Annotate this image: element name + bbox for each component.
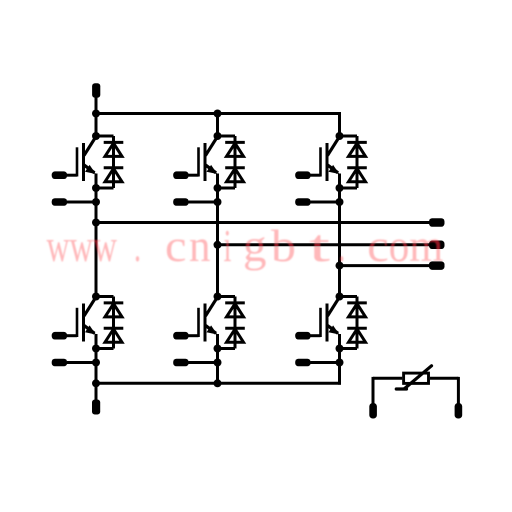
node Q2 cell aux emitter [214, 198, 222, 206]
transistor Q2 body bar [204, 143, 207, 181]
diode D4b [105, 329, 122, 342]
node Q3 cell aux emitter [336, 198, 344, 206]
transistor Q3 emitter arrowhead [329, 165, 340, 174]
wire thermistor left lead [373, 377, 402, 380]
wire leg2 top rail to Q2 collector [216, 114, 219, 137]
wire Q1 cell collector-to-diode top [96, 135, 114, 138]
transistor Q5 body bar [204, 304, 207, 342]
wire Q6 cell aux emitter lead [311, 361, 340, 364]
transistor Q3 collector diagonal [328, 137, 340, 156]
wire Q5 cell diode-to-emitter bottom [218, 347, 236, 350]
transistor Q5 emitter diagonal [205, 325, 216, 333]
svg-text:i: i [224, 220, 232, 271]
transistor Q3 gate bar [319, 147, 322, 176]
wire leg3 top rail corner to Q3 collector [338, 112, 341, 136]
wire Q3 cell diode-to-emitter bottom [340, 187, 358, 190]
transistor Q6 emitter arrowhead [329, 325, 340, 334]
wire N bus (bottom rail) [96, 382, 341, 385]
transistor Q1 gate bar [76, 147, 79, 176]
diode D1 [105, 143, 122, 156]
node Q3 cell collector [336, 132, 344, 140]
node Q2 cell collector [214, 132, 222, 140]
terminal pad aux emitter Q6 [295, 359, 310, 367]
node Q1 cell aux emitter [92, 198, 100, 206]
wire P bus (top rail) [96, 112, 341, 115]
wire Q4 cell diode column [112, 297, 115, 349]
terminal pad phase W [429, 261, 445, 270]
node phase V junction [214, 241, 222, 249]
transistor Q1 gate lead [67, 174, 77, 177]
wire leg3 Q6 emitter to N rail corner [338, 336, 341, 385]
terminal pad gate Q5 [173, 332, 188, 340]
diode D6b cathode bar [347, 327, 367, 330]
svg-text:w: w [93, 220, 118, 271]
terminal pad gate Q3 [295, 171, 310, 179]
terminal pad P (DC+) [92, 83, 100, 97]
terminal pad aux emitter Q3 [295, 198, 310, 206]
wire leg1 P terminal to Q1 collector [95, 91, 98, 137]
wire Q3 cell diode column [356, 136, 359, 188]
transistor Q2 collector diagonal [206, 137, 218, 156]
terminal pad thermistor left [369, 403, 377, 419]
transistor Q6 collector diagonal [328, 297, 340, 316]
diode D3b [349, 169, 366, 182]
transistor Q6 emitter diagonal [327, 325, 338, 333]
terminal pad phase U [429, 218, 445, 227]
svg-text:c: c [367, 220, 389, 271]
node leg2 N rail junction [214, 379, 222, 387]
wire Q4 cell diode-to-emitter bottom [96, 347, 114, 350]
transistor Q2 gate lead [189, 174, 199, 177]
wire Q6 emitter lead [338, 334, 341, 349]
wire thermistor left drop [372, 377, 375, 404]
node Q2 cell emitter [214, 184, 222, 192]
terminal pad aux emitter Q5 [173, 359, 188, 367]
wire thermistor right drop [457, 377, 460, 404]
terminal pad aux emitter Q4 [52, 359, 67, 367]
svg-text:.: . [134, 220, 141, 271]
diode D3 cathode bar [347, 141, 367, 144]
wire Q4 cell collector-to-diode top [96, 295, 114, 298]
diode D1 cathode bar [104, 141, 124, 144]
node leg2 P rail junction [214, 110, 222, 118]
diode D5b [227, 329, 244, 342]
wire phase V output line [218, 243, 430, 246]
transistor Q4 gate lead [67, 334, 77, 337]
transistor Q1 emitter diagonal [84, 165, 95, 173]
wire Q6 cell collector-to-diode top [340, 295, 358, 298]
wire Q1 cell diode-to-emitter bottom [96, 187, 114, 190]
node Q4 cell collector [92, 293, 100, 301]
transistor Q4 body bar [82, 304, 85, 342]
wire Q2 cell diode column [234, 136, 237, 188]
wire Q6 cell diode-to-emitter bottom [340, 347, 358, 350]
wire leg2 Q2 emitter to Q5 collector [216, 175, 219, 297]
transistor Q2 gate bar [197, 147, 200, 176]
node Q6 cell aux emitter [336, 359, 344, 367]
transistor Q1 collector diagonal [84, 137, 96, 156]
wire Q5 emitter lead [216, 334, 219, 349]
node Q5 cell emitter [214, 345, 222, 353]
wire Q4 emitter lead [95, 334, 98, 349]
diode D1b [105, 169, 122, 182]
transistor Q2 emitter arrowhead [207, 165, 218, 174]
diode D6 cathode bar [347, 301, 367, 304]
diode D1b cathode bar [104, 166, 124, 169]
transistor Q1 body bar [82, 143, 85, 181]
transistor Q4 collector diagonal [84, 297, 96, 316]
svg-text:b: b [271, 220, 296, 271]
transistor Q2 emitter diagonal [205, 165, 216, 173]
node Q3 cell emitter [336, 184, 344, 192]
wire Q1 emitter lead [95, 174, 98, 189]
diode D4 [105, 304, 122, 317]
terminal pad aux emitter Q2 [173, 198, 188, 206]
wire leg3 Q3 emitter to Q6 collector [338, 175, 341, 297]
transistor Q4 emitter diagonal [84, 325, 95, 333]
terminal pad N (DC-) [92, 400, 100, 415]
diode D3 [349, 143, 366, 156]
svg-text:.: . [339, 220, 346, 271]
wire Q2 cell aux emitter lead [189, 201, 218, 204]
transistor Q5 gate lead [189, 334, 199, 337]
wire Q2 cell diode-to-emitter bottom [218, 187, 236, 190]
diode D5 [227, 304, 244, 317]
diode D4 cathode bar [104, 301, 124, 304]
diode D2b [227, 169, 244, 182]
transistor Q5 collector diagonal [206, 297, 218, 316]
node Q6 cell collector [336, 293, 344, 301]
diode D3b cathode bar [347, 166, 367, 169]
diode D6b [349, 329, 366, 342]
wire Q1 cell aux emitter lead [67, 201, 96, 204]
wire Q6 cell diode column [356, 297, 359, 349]
wire leg1 Q1 emitter to Q4 collector [95, 175, 98, 297]
wire Q2 emitter lead [216, 174, 219, 189]
node Q1 cell emitter [92, 184, 100, 192]
node Q1 cell collector [92, 132, 100, 140]
node Q6 cell emitter [336, 345, 344, 353]
terminal pad thermistor right [455, 403, 463, 419]
svg-text:t: t [309, 220, 330, 271]
wire Q2 cell collector-to-diode top [218, 135, 236, 138]
wire Q3 emitter lead [338, 174, 341, 189]
node Q5 cell collector [214, 293, 222, 301]
thermistor RT body [404, 373, 429, 383]
node Q4 cell emitter [92, 345, 100, 353]
wire thermistor right lead [430, 377, 458, 380]
diode D5b cathode bar [225, 327, 245, 330]
node phase W junction [336, 262, 344, 270]
transistor Q3 emitter diagonal [327, 165, 338, 173]
wire Q3 cell aux emitter lead [311, 201, 340, 204]
transistor Q4 gate bar [76, 308, 79, 337]
svg-text:w: w [70, 220, 94, 271]
transistor Q6 gate bar [319, 308, 322, 337]
thermistor RT slash foot [396, 387, 406, 390]
svg-text:g: g [243, 220, 267, 271]
svg-text:w: w [47, 220, 71, 271]
wire Q3 cell collector-to-diode top [340, 135, 358, 138]
diode D2 cathode bar [225, 141, 245, 144]
diode D2b cathode bar [225, 166, 245, 169]
node leg1 N rail junction [92, 379, 100, 387]
wire Q5 cell aux emitter lead [189, 361, 218, 364]
wire leg1 Q4 emitter chain to N terminal [95, 336, 98, 408]
terminal pad gate Q1 [52, 171, 67, 179]
transistor Q5 emitter arrowhead [207, 325, 218, 334]
wire phase U output line [96, 221, 430, 224]
diode D4b cathode bar [104, 327, 124, 330]
transistor Q6 gate lead [311, 334, 321, 337]
transistor Q3 gate lead [311, 174, 321, 177]
wire leg2 Q5 emitter to N rail [216, 336, 219, 384]
transistor Q6 body bar [326, 304, 329, 342]
svg-text:m: m [409, 220, 443, 271]
terminal pad gate Q4 [52, 332, 67, 340]
svg-text:n: n [189, 220, 211, 271]
diode D5 cathode bar [225, 301, 245, 304]
wire Q1 cell diode column [112, 136, 115, 188]
thermistor RT slash [405, 366, 432, 389]
terminal pad phase V [429, 241, 445, 250]
svg-text:c: c [165, 220, 187, 271]
node Q5 cell aux emitter [214, 359, 222, 367]
wire Q5 cell collector-to-diode top [218, 295, 236, 298]
diode D6 [349, 304, 366, 317]
transistor Q5 gate bar [197, 308, 200, 337]
watermark www.cnigbt.com [47, 220, 444, 271]
transistor Q3 body bar [326, 143, 329, 181]
diode D2 [227, 143, 244, 156]
transistor Q1 emitter arrowhead [85, 165, 96, 174]
terminal pad aux emitter Q1 [52, 198, 67, 206]
terminal pad gate Q6 [295, 332, 310, 340]
wire Q5 cell diode column [234, 297, 237, 349]
wire phase W output line [340, 264, 430, 267]
terminal pad gate Q2 [173, 171, 188, 179]
node Q4 cell aux emitter [92, 359, 100, 367]
wire Q4 cell aux emitter lead [67, 361, 96, 364]
transistor Q4 emitter arrowhead [85, 325, 96, 334]
node leg1 P rail junction [92, 110, 100, 118]
svg-text:o: o [389, 220, 410, 271]
node phase U junction [92, 219, 100, 227]
